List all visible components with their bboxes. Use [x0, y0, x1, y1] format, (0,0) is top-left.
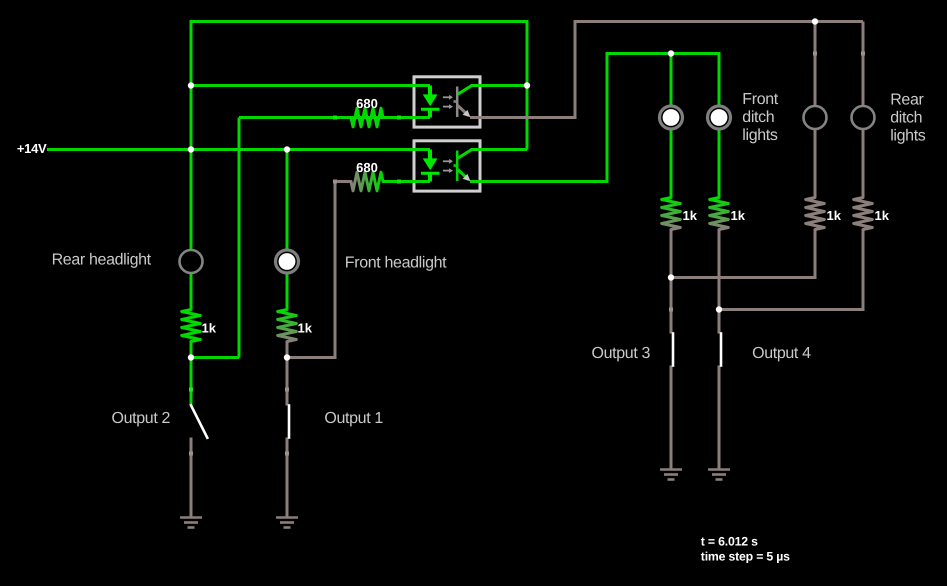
svg-text:1k: 1k — [731, 208, 746, 223]
svg-text:ditch: ditch — [742, 109, 774, 126]
svg-text:1k: 1k — [202, 321, 217, 336]
svg-text:1k: 1k — [683, 208, 698, 223]
svg-text:+14V: +14V — [17, 141, 47, 156]
svg-text:Output 2: Output 2 — [112, 410, 171, 427]
svg-text:1k: 1k — [875, 208, 890, 223]
svg-text:Output 4: Output 4 — [752, 345, 811, 362]
svg-text:Rear headlight: Rear headlight — [52, 252, 152, 269]
svg-text:ditch: ditch — [890, 110, 922, 127]
svg-text:1k: 1k — [298, 321, 313, 336]
svg-text:Output 1: Output 1 — [324, 410, 383, 427]
svg-text:Front headlight: Front headlight — [345, 255, 447, 272]
svg-text:680: 680 — [356, 96, 378, 111]
svg-text:lights: lights — [890, 128, 926, 145]
svg-text:1k: 1k — [827, 208, 842, 223]
svg-text:Rear: Rear — [890, 92, 924, 109]
svg-text:Front: Front — [742, 91, 778, 108]
svg-text:680: 680 — [356, 160, 378, 175]
svg-text:time step = 5 µs: time step = 5 µs — [701, 549, 790, 563]
svg-text:Output 3: Output 3 — [592, 345, 651, 362]
svg-text:lights: lights — [742, 127, 778, 144]
svg-text:t = 6.012 s: t = 6.012 s — [701, 535, 758, 549]
